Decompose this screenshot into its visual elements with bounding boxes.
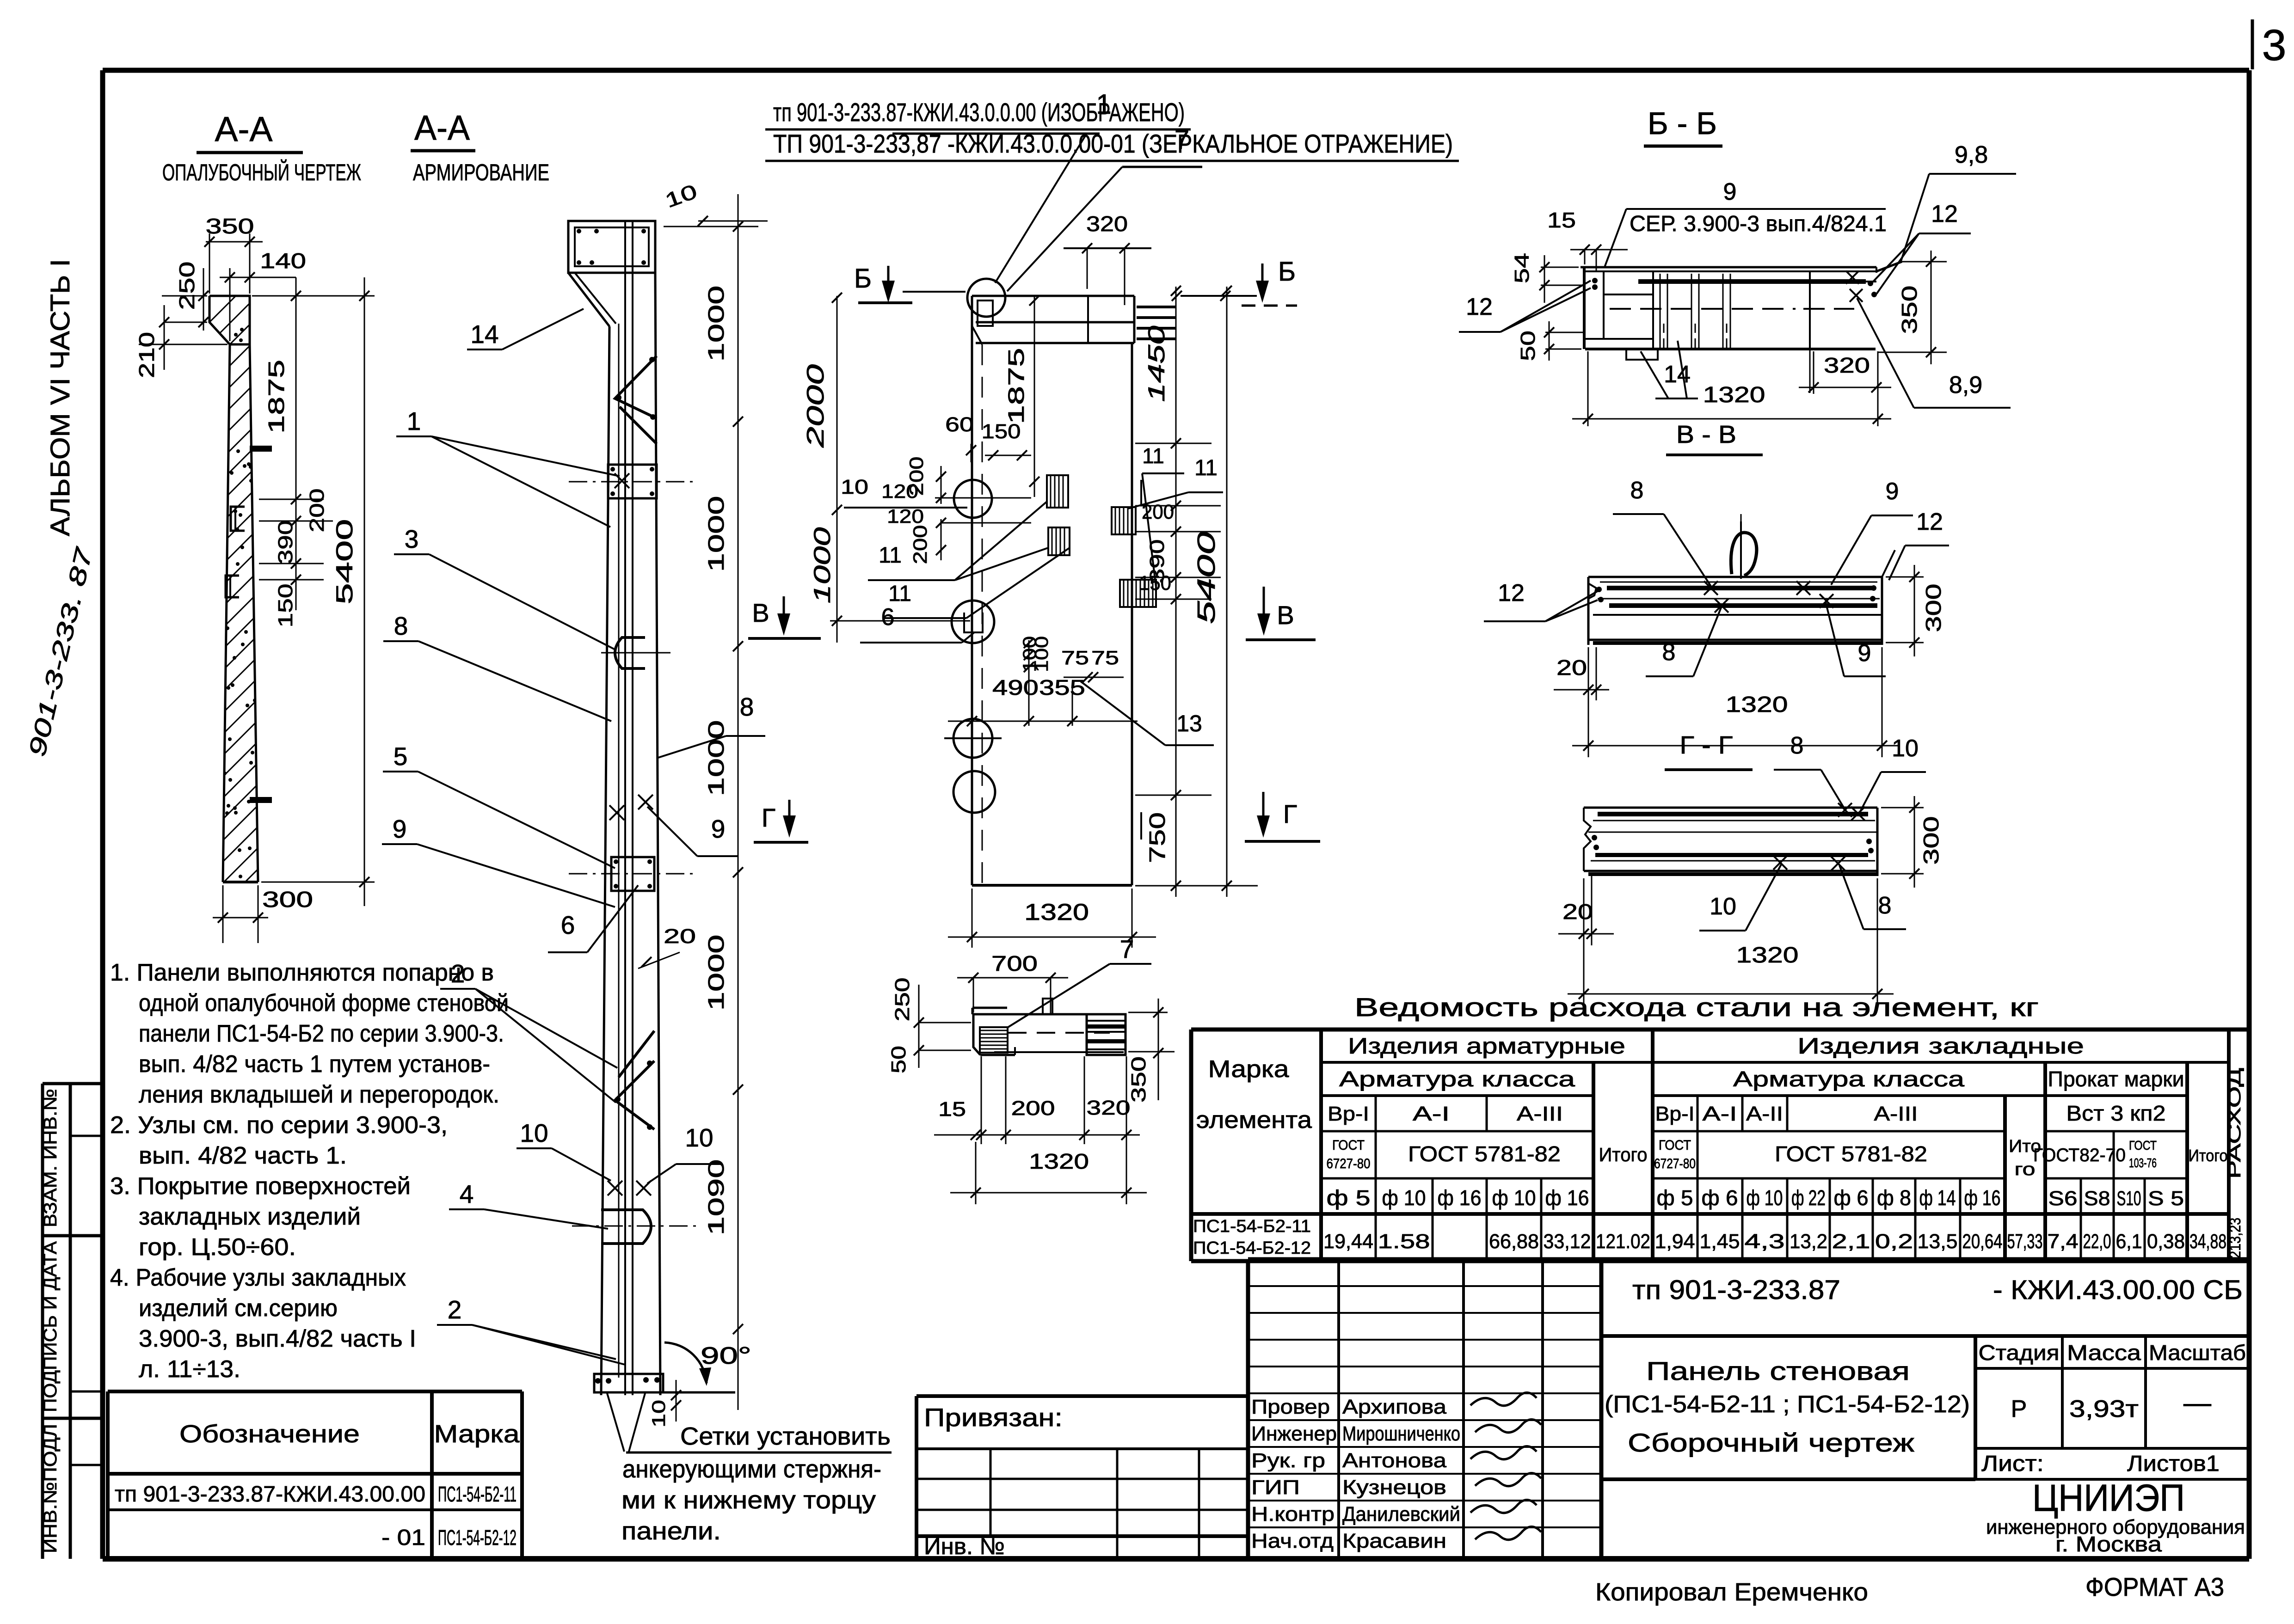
svg-text:одной опалубочной форме стенов: одной опалубочной форме стеновой	[139, 990, 509, 1017]
svg-text:Марка: Марка	[434, 1420, 520, 1448]
svg-text:1320: 1320	[1024, 899, 1089, 925]
svg-text:ф 16: ф 16	[1545, 1186, 1589, 1210]
svg-text:ГИП: ГИП	[1251, 1476, 1300, 1499]
svg-text:20,64: 20,64	[1962, 1230, 2003, 1253]
svg-text:ф 10: ф 10	[1382, 1186, 1426, 1210]
svg-text:Масштаб: Масштаб	[2149, 1341, 2246, 1365]
svg-text:ГОСТ: ГОСТ	[1659, 1138, 1691, 1153]
svg-text:13,5: 13,5	[1918, 1230, 1958, 1253]
svg-text:5400: 5400	[1193, 532, 1220, 624]
svg-text:Н.контр: Н.контр	[1251, 1503, 1335, 1526]
svg-text:ления вкладышей и перегородок.: ления вкладышей и перегородок.	[139, 1081, 499, 1108]
svg-text:Изделия арматурные: Изделия арматурные	[1348, 1034, 1625, 1059]
svg-text:ф 8: ф 8	[1877, 1186, 1911, 1210]
svg-text:120: 120	[887, 505, 924, 527]
svg-text:8: 8	[740, 692, 754, 721]
svg-text:Мирошниченко: Мирошниченко	[1342, 1422, 1460, 1445]
svg-text:20: 20	[1556, 656, 1587, 680]
svg-text:34,88: 34,88	[2189, 1230, 2226, 1253]
svg-text:ф 5: ф 5	[1657, 1186, 1693, 1210]
svg-text:66,88: 66,88	[1489, 1230, 1539, 1253]
svg-text:Стадия: Стадия	[1979, 1341, 2060, 1365]
svg-text:Обозначение: Обозначение	[179, 1420, 360, 1448]
svg-text:тп 901-3-233.87: тп 901-3-233.87	[1632, 1275, 1840, 1305]
svg-text:S 5: S 5	[2148, 1187, 2184, 1210]
svg-text:3,93т: 3,93т	[2069, 1396, 2139, 1422]
svg-text:вып. 4/82 часть 1 путем устано: вып. 4/82 часть 1 путем установ-	[139, 1051, 490, 1078]
svg-text:8,9: 8,9	[1949, 372, 1982, 398]
svg-text:ОПАЛУБОЧНЫЙ ЧЕРТЕЖ: ОПАЛУБОЧНЫЙ ЧЕРТЕЖ	[162, 159, 361, 185]
svg-text:го: го	[2015, 1160, 2036, 1179]
svg-text:В: В	[1277, 601, 1294, 630]
svg-text:20: 20	[1562, 900, 1593, 924]
svg-text:элемента: элемента	[1196, 1107, 1312, 1134]
svg-text:6727-80: 6727-80	[1327, 1156, 1371, 1171]
svg-text:Ведомость расхода стали на: Ведомость расхода стали на элемент, кг	[1354, 993, 2039, 1022]
svg-text:1320: 1320	[1736, 943, 1799, 968]
svg-text:140: 140	[260, 249, 306, 273]
svg-text:50: 50	[1517, 331, 1539, 361]
svg-text:320: 320	[1086, 212, 1128, 236]
svg-text:А-III: А-III	[1517, 1103, 1563, 1125]
svg-text:350: 350	[206, 214, 254, 238]
svg-text:7,4: 7,4	[2048, 1230, 2079, 1253]
svg-text:6: 6	[561, 911, 575, 939]
svg-text:2000: 2000	[802, 364, 829, 448]
svg-text:ф 10: ф 10	[1747, 1186, 1783, 1210]
svg-text:4: 4	[460, 1180, 474, 1208]
svg-text:1320: 1320	[1726, 692, 1788, 717]
svg-text:ГОСТ 5781-82: ГОСТ 5781-82	[1408, 1142, 1561, 1166]
svg-text:14: 14	[470, 320, 498, 349]
svg-text:Б: Б	[854, 264, 872, 294]
svg-text:3: 3	[405, 525, 419, 553]
svg-text:9: 9	[1858, 640, 1871, 667]
svg-text:54: 54	[1511, 253, 1533, 283]
svg-text:0,38: 0,38	[2147, 1230, 2185, 1253]
svg-text:1875: 1875	[1004, 348, 1029, 424]
svg-text:2,1: 2,1	[1832, 1230, 1870, 1253]
svg-text:изделий см.серию: изделий см.серию	[139, 1295, 338, 1322]
svg-text:В: В	[752, 598, 769, 627]
svg-text:8: 8	[1662, 639, 1676, 666]
svg-text:ф 22: ф 22	[1791, 1186, 1826, 1210]
svg-text:350: 350	[1897, 286, 1921, 334]
svg-text:14: 14	[1664, 361, 1691, 388]
svg-text:1,94: 1,94	[1655, 1230, 1695, 1253]
svg-text:Вр-I: Вр-I	[1655, 1103, 1695, 1125]
svg-text:ГОСТ: ГОСТ	[2129, 1138, 2157, 1152]
svg-text:ПС1-54-Б2-11: ПС1-54-Б2-11	[438, 1482, 517, 1506]
svg-text:Привязан:: Привязан:	[924, 1403, 1063, 1432]
svg-text:ПОДПИСЬ И ДАТА: ПОДПИСЬ И ДАТА	[40, 1241, 61, 1412]
svg-text:5400: 5400	[332, 519, 357, 605]
svg-text:СЕР. 3.900-3 вып.4/824.1: СЕР. 3.900-3 вып.4/824.1	[1630, 212, 1887, 236]
svg-text:В - В: В - В	[1676, 421, 1736, 448]
svg-text:ВЗАМ. ИНВ.№: ВЗАМ. ИНВ.№	[40, 1089, 61, 1227]
svg-text:7: 7	[1120, 935, 1134, 963]
svg-text:Итого: Итого	[2189, 1146, 2228, 1165]
svg-text:ПС1-54-Б2-11: ПС1-54-Б2-11	[1193, 1217, 1311, 1236]
svg-text:S6: S6	[2048, 1187, 2078, 1210]
svg-text:150: 150	[1139, 572, 1171, 594]
svg-text:150: 150	[274, 584, 297, 628]
svg-text:ПС1-54-Б2-12: ПС1-54-Б2-12	[438, 1526, 517, 1550]
svg-text:1000: 1000	[704, 720, 729, 797]
svg-text:1875: 1875	[264, 360, 289, 434]
svg-text:10: 10	[685, 1123, 713, 1152]
svg-text:320: 320	[1087, 1097, 1131, 1119]
svg-text:100: 100	[1032, 636, 1052, 672]
svg-text:60: 60	[945, 413, 974, 436]
svg-text:Арматура класса: Арматура класса	[1733, 1067, 1965, 1091]
svg-text:350: 350	[1127, 1056, 1150, 1103]
svg-text:ФОРМАТ А3: ФОРМАТ А3	[2085, 1572, 2224, 1601]
svg-text:15: 15	[1547, 208, 1576, 232]
svg-text:213,23: 213,23	[2226, 1218, 2244, 1258]
svg-text:Рук. гр: Рук. гр	[1251, 1449, 1325, 1472]
svg-text:ф 14: ф 14	[1919, 1186, 1956, 1210]
svg-text:панели.: панели.	[621, 1517, 721, 1545]
svg-text:Инв. №: Инв. №	[924, 1533, 1005, 1559]
svg-text:ТП 901-3-233,87 -КЖИ.43.0.0.00: ТП 901-3-233,87 -КЖИ.43.0.0.00-01 (ЗЕРКА…	[773, 129, 1453, 158]
svg-text:А-I: А-I	[1413, 1103, 1450, 1125]
svg-text:9: 9	[1886, 478, 1899, 505]
svg-text:10: 10	[1892, 735, 1919, 762]
svg-text:1000: 1000	[809, 527, 835, 603]
svg-text:1. Панели выполняются попарно: 1. Панели выполняются попарно в	[110, 959, 494, 986]
svg-text:4. Рабочие узлы закладных: 4. Рабочие узлы закладных	[110, 1264, 406, 1291]
svg-text:4,3: 4,3	[1745, 1230, 1785, 1253]
svg-text:ИНВ.№ПОДЛ: ИНВ.№ПОДЛ	[40, 1424, 61, 1553]
svg-text:Данилевский: Данилевский	[1342, 1503, 1460, 1526]
svg-text:анкерующими стержня-: анкерующими стержня-	[622, 1455, 881, 1483]
svg-text:0,2: 0,2	[1875, 1230, 1913, 1253]
svg-text:11: 11	[1142, 444, 1164, 468]
svg-text:200: 200	[306, 489, 328, 533]
svg-text:200: 200	[1142, 501, 1174, 523]
svg-text:300: 300	[262, 888, 313, 912]
svg-text:13,2: 13,2	[1790, 1230, 1827, 1253]
svg-text:200: 200	[905, 457, 927, 496]
svg-text:А-А: А-А	[215, 110, 273, 148]
svg-text:1000: 1000	[704, 496, 729, 572]
svg-text:ГОСТ: ГОСТ	[1332, 1138, 1365, 1153]
svg-text:6: 6	[881, 604, 895, 631]
svg-text:Г: Г	[762, 803, 775, 832]
svg-text:10: 10	[841, 476, 868, 498]
svg-text:ф 16: ф 16	[1438, 1186, 1482, 1210]
svg-text:S8: S8	[2084, 1187, 2110, 1210]
svg-text:Лист:: Лист:	[1981, 1452, 2044, 1476]
svg-text:9: 9	[1723, 178, 1737, 205]
svg-text:Изделия закладные: Изделия закладные	[1797, 1034, 2084, 1059]
svg-text:1000: 1000	[704, 935, 729, 1011]
svg-text:Г: Г	[1283, 799, 1297, 828]
svg-text:Кузнецов: Кузнецов	[1342, 1476, 1446, 1499]
svg-text:3: 3	[2262, 21, 2287, 70]
svg-text:9: 9	[393, 815, 407, 843]
svg-text:1,45: 1,45	[1700, 1230, 1740, 1253]
svg-text:10: 10	[1710, 893, 1736, 920]
svg-text:9,8: 9,8	[1955, 141, 1988, 168]
svg-text:л. 11÷13.: л. 11÷13.	[139, 1356, 240, 1383]
svg-text:—: —	[2183, 1387, 2211, 1418]
svg-text:90°: 90°	[701, 1342, 751, 1369]
svg-text:8: 8	[1878, 892, 1892, 919]
svg-text:9: 9	[711, 815, 726, 843]
svg-text:19,44: 19,44	[1323, 1230, 1373, 1253]
svg-text:ф 10: ф 10	[1492, 1186, 1536, 1210]
svg-text:Марка: Марка	[1208, 1056, 1289, 1083]
svg-text:200: 200	[909, 525, 931, 564]
svg-text:Масса: Масса	[2067, 1341, 2141, 1365]
svg-text:1090: 1090	[704, 1159, 729, 1236]
svg-text:закладных изделий: закладных изделий	[139, 1203, 361, 1230]
svg-text:1450: 1450	[1144, 325, 1169, 402]
svg-text:50: 50	[887, 1046, 910, 1073]
svg-text:10: 10	[649, 1400, 669, 1428]
svg-text:13: 13	[1176, 711, 1202, 736]
svg-text:250: 250	[175, 262, 199, 310]
svg-text:490: 490	[992, 675, 1039, 699]
svg-text:вып. 4/82 часть 1.: вып. 4/82 часть 1.	[139, 1142, 347, 1169]
svg-text:11: 11	[1194, 456, 1218, 480]
svg-text:7: 7	[1175, 125, 1189, 155]
svg-text:33,12: 33,12	[1544, 1230, 1591, 1253]
svg-text:Инженер: Инженер	[1251, 1422, 1337, 1445]
svg-text:1320: 1320	[1029, 1149, 1089, 1173]
svg-text:20: 20	[664, 925, 696, 948]
svg-text:Провер: Провер	[1251, 1396, 1330, 1418]
svg-text:1320: 1320	[1703, 383, 1765, 407]
svg-text:3.900-3, вып.4/82 часть I: 3.900-3, вып.4/82 часть I	[139, 1325, 416, 1352]
svg-text:8: 8	[1630, 477, 1644, 504]
svg-text:12: 12	[1931, 201, 1958, 227]
svg-text:А-I: А-I	[1703, 1103, 1737, 1125]
svg-text:8: 8	[394, 612, 408, 640]
svg-text:А-II: А-II	[1746, 1103, 1783, 1125]
svg-text:- 01: - 01	[381, 1526, 425, 1550]
svg-text:Нач.отд: Нач.отд	[1251, 1530, 1334, 1552]
svg-text:300: 300	[1919, 816, 1943, 865]
svg-text:210: 210	[135, 332, 159, 378]
svg-text:Панель стеновая: Панель стеновая	[1646, 1356, 1910, 1385]
svg-text:75: 75	[1061, 647, 1089, 668]
svg-text:ф 6: ф 6	[1834, 1186, 1869, 1210]
svg-text:12: 12	[1498, 580, 1525, 607]
svg-text:Копировал Еремченко: Копировал Еремченко	[1595, 1578, 1868, 1606]
svg-text:57,33: 57,33	[2007, 1230, 2043, 1253]
svg-text:2. Узлы см. по серии 3.900-3,: 2. Узлы см. по серии 3.900-3,	[110, 1112, 448, 1139]
svg-text:ГОСТ82-70: ГОСТ82-70	[2033, 1145, 2126, 1165]
svg-text:ф 5: ф 5	[1327, 1186, 1371, 1210]
svg-text:320: 320	[1824, 353, 1870, 377]
svg-text:355: 355	[1039, 675, 1085, 699]
svg-text:Арматура класса: Арматура класса	[1339, 1067, 1575, 1091]
svg-text:ЦНИИЭП: ЦНИИЭП	[2032, 1477, 2185, 1519]
svg-text:Прокат марки: Прокат марки	[2048, 1067, 2184, 1091]
svg-text:8: 8	[1790, 732, 1804, 759]
svg-text:75: 75	[1091, 647, 1119, 668]
svg-text:А-III: А-III	[1874, 1103, 1918, 1125]
svg-text:11: 11	[888, 582, 911, 606]
svg-text:6727-80: 6727-80	[1654, 1156, 1696, 1171]
svg-text:6,1: 6,1	[2116, 1230, 2142, 1253]
svg-text:103-76: 103-76	[2129, 1156, 2157, 1170]
svg-text:АРМИРОВАНИЕ: АРМИРОВАНИЕ	[413, 159, 549, 185]
svg-text:1: 1	[1096, 89, 1111, 120]
svg-text:12: 12	[1466, 294, 1493, 320]
svg-text:А-А: А-А	[414, 108, 470, 147]
svg-text:ми к нижнему торцу: ми к нижнему торцу	[621, 1486, 876, 1514]
svg-text:200: 200	[1011, 1097, 1055, 1120]
svg-text:Красавин: Красавин	[1342, 1530, 1446, 1552]
svg-text:5: 5	[394, 742, 408, 771]
svg-text:S10: S10	[2117, 1187, 2141, 1210]
svg-text:гор. Ц.50÷60.: гор. Ц.50÷60.	[139, 1234, 296, 1261]
svg-text:Вр-I: Вр-I	[1328, 1103, 1369, 1125]
svg-text:Листов1: Листов1	[2127, 1452, 2220, 1476]
svg-text:3. Покрытие поверхностей: 3. Покрытие поверхностей	[110, 1173, 411, 1200]
svg-text:ГОСТ 5781-82: ГОСТ 5781-82	[1775, 1142, 1927, 1166]
svg-text:11: 11	[879, 543, 902, 568]
svg-text:300: 300	[1921, 584, 1945, 632]
svg-text:12: 12	[1916, 509, 1943, 535]
svg-text:Вст 3 кп2: Вст 3 кп2	[2066, 1101, 2166, 1125]
svg-text:700: 700	[991, 951, 1038, 975]
svg-text:121.02: 121.02	[1596, 1230, 1650, 1253]
svg-text:ф 16: ф 16	[1964, 1186, 2001, 1210]
svg-text:- КЖИ.43.00.00 СБ: - КЖИ.43.00.00 СБ	[1993, 1275, 2243, 1305]
svg-text:РАСХОД: РАСХОД	[2225, 1068, 2245, 1179]
svg-text:250: 250	[891, 978, 914, 1022]
svg-text:тп 901-3-233.87-КЖИ.43.0.0.00: тп 901-3-233.87-КЖИ.43.0.0.00 (ИЗОБРАЖЕН…	[773, 98, 1185, 127]
svg-text:Антонова: Антонова	[1342, 1449, 1447, 1472]
svg-text:г. Москва: г. Москва	[2055, 1532, 2162, 1556]
svg-text:Сборочный чертеж: Сборочный чертеж	[1628, 1428, 1915, 1457]
svg-text:Б - Б: Б - Б	[1648, 106, 1717, 141]
svg-text:10: 10	[520, 1119, 548, 1147]
svg-text:2: 2	[448, 1295, 462, 1324]
svg-text:1.58: 1.58	[1378, 1230, 1430, 1253]
svg-text:390: 390	[274, 521, 297, 564]
svg-text:(ПС1-54-Б2-11 ; ПС1-54-Б2-12): (ПС1-54-Б2-11 ; ПС1-54-Б2-12)	[1605, 1391, 1970, 1418]
svg-text:15: 15	[938, 1098, 966, 1121]
svg-text:Архипова: Архипова	[1342, 1396, 1447, 1418]
svg-text:Б: Б	[1278, 257, 1296, 287]
svg-text:1000: 1000	[704, 286, 729, 362]
svg-text:ПС1-54-Б2-12: ПС1-54-Б2-12	[1193, 1238, 1311, 1258]
svg-text:Р: Р	[2011, 1396, 2027, 1422]
svg-text:тп 901-3-233.87-КЖИ.43.00.00: тп 901-3-233.87-КЖИ.43.00.00	[115, 1482, 425, 1507]
svg-text:ф 6: ф 6	[1702, 1186, 1738, 1210]
svg-text:Итого: Итого	[1599, 1144, 1648, 1165]
svg-text:1: 1	[407, 407, 421, 435]
svg-text:750: 750	[1145, 812, 1170, 863]
svg-text:22,0: 22,0	[2083, 1230, 2111, 1253]
svg-text:АЛЬБОМ VI ЧАСТЬ I: АЛЬБОМ VI ЧАСТЬ I	[45, 259, 75, 536]
svg-text:150: 150	[982, 420, 1021, 443]
svg-text:Сетки установить: Сетки установить	[680, 1422, 891, 1450]
svg-text:панели ПС1-54-Б2 по серии 3.90: панели ПС1-54-Б2 по серии 3.900-3.	[139, 1020, 504, 1047]
